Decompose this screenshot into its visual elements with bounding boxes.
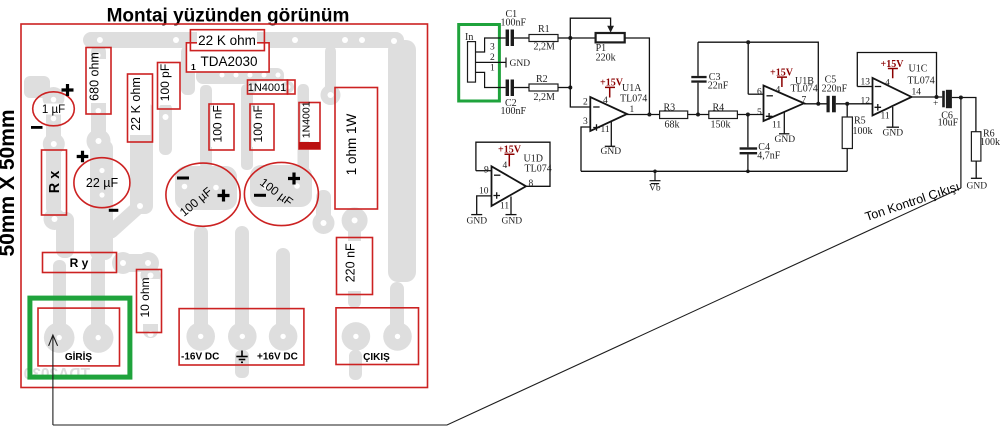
wire U1B pin6 <box>748 93 763 95</box>
svg-text:1N4001: 1N4001 <box>248 82 287 94</box>
input connector J1 <box>468 42 476 83</box>
svg-text:100 nF: 100 nF <box>251 105 265 142</box>
svg-text:R2: R2 <box>536 74 548 85</box>
svg-text:TL074: TL074 <box>791 84 818 95</box>
svg-text:22 K ohm: 22 K ohm <box>198 33 256 48</box>
pointer arrow at GIRIS <box>49 335 58 425</box>
pin label 4 U1D <box>503 161 508 171</box>
pin label 11 U1B <box>772 121 781 131</box>
wire U1A output to R3 <box>627 114 660 116</box>
PCB silkscreen watermark TDA2030 mirrored <box>24 366 90 383</box>
capacitor C6 electrolytic <box>933 90 959 129</box>
junction U1B feedback top <box>746 40 750 44</box>
pin label 2 U1A <box>583 98 588 108</box>
svg-text:-16V DC: -16V DC <box>181 352 219 363</box>
svg-text:1: 1 <box>191 62 196 72</box>
PCB capacitor 100 pF <box>158 63 181 110</box>
pointer line to schematic output <box>53 188 961 425</box>
PCB resistor Rx <box>42 150 67 215</box>
svg-text:R3: R3 <box>664 103 676 114</box>
+15V supply U1D <box>498 145 522 167</box>
pin label 11 U1A <box>601 125 610 135</box>
svg-text:11: 11 <box>772 121 781 131</box>
wire C2 to R2 <box>514 87 529 89</box>
svg-text:GND: GND <box>883 129 904 139</box>
svg-text:10 ohm: 10 ohm <box>138 277 152 317</box>
svg-text:TDA2030: TDA2030 <box>200 54 257 69</box>
wire pin2 to GND <box>476 61 506 63</box>
wire U1C output to C6 <box>912 96 943 98</box>
svg-text:10: 10 <box>479 187 489 197</box>
PCB capacitor 100 uF (left) <box>166 163 240 226</box>
PCB resistor 22 K ohm (vertical) <box>128 74 153 142</box>
op-amp U1A <box>590 83 647 131</box>
svg-text:4: 4 <box>603 96 608 106</box>
svg-text:680 ohm: 680 ohm <box>88 52 102 101</box>
PCB IC TDA2030 outline <box>186 43 269 72</box>
svg-text:220nF: 220nF <box>822 84 848 95</box>
wire R4 to U1B pin5 <box>737 114 763 116</box>
node A junction <box>568 36 572 40</box>
svg-text:1 µF: 1 µF <box>42 104 65 116</box>
svg-text:1: 1 <box>630 105 635 115</box>
P1 wiper arrowhead <box>607 26 614 33</box>
ground R6 <box>967 178 988 191</box>
PCB resistor 1 ohm 1W <box>335 88 378 210</box>
PCB title <box>107 6 350 27</box>
capacitor C1 <box>501 9 527 46</box>
U1D feedback loop wire <box>476 142 550 186</box>
PCB capacitor 220 nF <box>337 238 373 295</box>
pin label 3 U1A <box>583 117 588 127</box>
capacitor C5 <box>822 75 848 113</box>
pin label 13 U1C <box>861 78 871 88</box>
PCB capacitor 100 uF (right) <box>244 162 318 225</box>
svg-text:2,2M: 2,2M <box>534 42 556 53</box>
pin label 9 U1D <box>484 166 489 176</box>
Vb bias node symbol <box>649 170 661 194</box>
PCB resistor 680 ohm <box>86 48 111 115</box>
svg-text:R1: R1 <box>538 24 550 35</box>
resistor R2 <box>529 74 558 103</box>
resistor R6 <box>971 129 1000 179</box>
wire U1D pin10 to ground <box>477 196 492 215</box>
wire pin1 to C2 <box>476 72 506 87</box>
svg-text:4: 4 <box>776 86 781 96</box>
svg-text:5: 5 <box>757 108 762 118</box>
svg-text:4,7nF: 4,7nF <box>757 151 781 162</box>
ground at connector pin2 <box>506 58 530 70</box>
svg-text:Ton Kontrol Çıkışı: Ton Kontrol Çıkışı <box>863 179 961 224</box>
wire node A up and to P1 wiper <box>570 18 610 38</box>
svg-text:9: 9 <box>484 166 489 176</box>
pin label 10 U1D <box>479 187 489 197</box>
PCB capacitor 100 nF (right) <box>250 104 274 150</box>
capacitor C3 <box>691 42 729 114</box>
ground U1D pin11 <box>502 197 523 227</box>
svg-text:100k: 100k <box>853 126 873 137</box>
resistor R1 <box>529 24 558 53</box>
svg-text:13: 13 <box>861 78 871 88</box>
svg-text:GND: GND <box>775 135 796 145</box>
PCB diode 1N4001 (horizontal) <box>248 80 296 94</box>
svg-text:11: 11 <box>500 202 509 212</box>
node In label <box>465 32 473 43</box>
wire C5 to U1C pin12 <box>836 103 873 105</box>
svg-text:R5: R5 <box>854 116 866 127</box>
svg-text:100nF: 100nF <box>501 18 527 29</box>
wire U1D pin9 <box>476 170 492 172</box>
op-amp U1C <box>873 64 935 116</box>
wire R2 to node A vertical <box>558 87 570 89</box>
junction R2 node <box>568 86 572 90</box>
+15V supply U1B <box>770 68 794 88</box>
svg-text:2,2M: 2,2M <box>534 92 556 103</box>
svg-text:6: 6 <box>757 88 762 98</box>
wire pin3 to C1 <box>476 38 506 52</box>
wire C3 to U1B feedback <box>698 41 748 43</box>
pin label 6 U1B <box>757 88 762 98</box>
svg-text:100nF: 100nF <box>501 106 527 117</box>
svg-text:11: 11 <box>601 125 610 135</box>
junction U1B output <box>816 102 820 106</box>
svg-text:1 ohm 1W: 1 ohm 1W <box>344 113 359 175</box>
PCB output connector CIKIS <box>336 308 419 365</box>
junction U1C output <box>935 95 939 99</box>
svg-text:GND: GND <box>601 147 622 157</box>
svg-text:TDA2030: TDA2030 <box>24 366 90 383</box>
output label Ton Kontrol Cikisi <box>863 179 961 224</box>
wire C6 to R6 <box>952 98 976 132</box>
svg-text:2: 2 <box>583 98 588 108</box>
wire P1 right down to U1A output <box>625 38 650 115</box>
svg-text:3: 3 <box>490 43 495 53</box>
PCB capacitor 22 uF <box>74 151 130 212</box>
wire output tap down <box>960 98 962 189</box>
wire R1 to node A <box>558 37 570 39</box>
svg-text:Vb: Vb <box>649 184 661 194</box>
svg-text:GİRİŞ: GİRİŞ <box>65 350 93 363</box>
svg-text:TL074: TL074 <box>908 76 935 87</box>
pin label 7 U1B <box>802 96 807 106</box>
U1C feedback loop wire <box>857 53 936 98</box>
svg-text:U1C: U1C <box>909 64 928 75</box>
pin label 8 U1D <box>529 179 534 189</box>
svg-text:8: 8 <box>529 179 534 189</box>
svg-text:TL074: TL074 <box>620 94 647 105</box>
capacitor C2 <box>501 80 527 118</box>
svg-text:12: 12 <box>861 97 871 107</box>
svg-text:3: 3 <box>583 117 588 127</box>
pin label 5 U1B <box>757 108 762 118</box>
PCB copper traces (gray) <box>24 32 416 380</box>
svg-text:220 nF: 220 nF <box>344 243 358 282</box>
PCB resistor Ry <box>43 253 117 273</box>
wire R3 to R4 <box>688 114 709 116</box>
ground U1A pin11 <box>601 122 622 157</box>
wire C1 to R1 <box>514 37 529 39</box>
capacitor C4 <box>740 115 781 174</box>
PCB resistor 22 K ohm (label box, top) <box>190 30 264 51</box>
svg-text:11: 11 <box>881 112 890 122</box>
junction C3 node <box>696 113 700 117</box>
+15V supply U1A <box>600 78 624 98</box>
svg-text:4: 4 <box>885 78 890 88</box>
pin label 11 U1D <box>500 202 509 212</box>
svg-text:TL074: TL074 <box>525 164 552 175</box>
svg-text:1N4001: 1N4001 <box>301 101 313 138</box>
pin label 2 <box>490 53 495 63</box>
PCB board outline (red) <box>21 24 428 388</box>
ground U1C pin11 <box>883 107 904 139</box>
resistor R5 <box>842 104 872 172</box>
wire node down to U1A pin2 <box>570 38 590 107</box>
resistor R4 <box>709 103 738 131</box>
svg-text:GND: GND <box>467 217 488 227</box>
svg-text:+: + <box>933 99 938 109</box>
resistor R3 <box>660 103 688 131</box>
pin label 12 U1C <box>861 97 871 107</box>
junction feedback at output <box>647 113 651 117</box>
PCB size label 50mm X 50mm <box>0 109 19 256</box>
svg-text:2: 2 <box>490 53 495 63</box>
svg-text:+16V DC: +16V DC <box>257 352 298 363</box>
PCB capacitor 1 uF <box>31 84 74 129</box>
svg-text:ÇIKIŞ: ÇIKIŞ <box>363 352 390 363</box>
PCB input highlight (green box) <box>30 298 130 377</box>
pin label 3 <box>490 43 495 53</box>
svg-text:100 pF: 100 pF <box>158 64 172 101</box>
op-amp U1B <box>764 76 818 121</box>
wire U1B output to C5 <box>804 103 827 105</box>
svg-text:1: 1 <box>490 64 495 74</box>
pin label 11 U1C <box>881 112 890 122</box>
svg-text:GND: GND <box>967 182 988 192</box>
input highlight green box <box>459 25 500 102</box>
ground U1B pin11 <box>775 112 796 145</box>
PCB power ground symbol <box>236 351 247 363</box>
svg-text:R4: R4 <box>713 103 725 114</box>
PCB power connector box <box>179 309 304 365</box>
svg-text:150k: 150k <box>711 120 731 131</box>
svg-text:68k: 68k <box>665 120 680 131</box>
PCB input connector GIRIS (red box) <box>38 308 120 366</box>
svg-text:GND: GND <box>510 59 531 69</box>
junction C4 node <box>746 113 750 117</box>
wire U1C pin13 <box>857 86 872 88</box>
op-amp U1D <box>492 154 552 206</box>
svg-text:22nF: 22nF <box>708 81 729 92</box>
svg-text:22 µF: 22 µF <box>86 176 119 190</box>
PCB capacitor 100 nF (left) <box>209 104 234 150</box>
svg-text:GND: GND <box>502 217 523 227</box>
junction output node <box>959 96 963 100</box>
wire node A to P1 left <box>570 37 595 39</box>
svg-text:100 nF: 100 nF <box>211 105 225 142</box>
wire U1A pin3 to Vb rail <box>581 127 590 171</box>
pin label 4 U1B <box>776 86 781 96</box>
svg-text:50mm X 50mm: 50mm X 50mm <box>0 109 19 256</box>
potentiometer P1 <box>596 33 625 64</box>
svg-text:R y: R y <box>70 256 89 270</box>
pin label 14 U1C <box>912 88 922 98</box>
pin label 1 U1A <box>630 105 635 115</box>
svg-text:100k: 100k <box>980 137 1000 148</box>
svg-text:4: 4 <box>503 161 508 171</box>
PCB pad holes (white) <box>51 37 400 340</box>
svg-text:22 K ohm: 22 K ohm <box>129 77 143 131</box>
svg-text:U1A: U1A <box>622 83 642 94</box>
pin label 4 U1A <box>603 96 608 106</box>
Vb rail wire <box>581 170 847 172</box>
junction R5 node <box>845 102 849 106</box>
svg-text:R x: R x <box>47 171 63 194</box>
pin label 1 <box>490 64 495 74</box>
pin label 4 U1C <box>885 78 890 88</box>
svg-text:10uF: 10uF <box>938 118 959 129</box>
PCB diode 1N4001 (vertical) <box>299 101 320 149</box>
U1B feedback loop wire <box>748 42 818 104</box>
PCB resistor 10 ohm <box>137 270 162 333</box>
svg-text:14: 14 <box>912 88 922 98</box>
+15V supply U1C <box>881 59 905 78</box>
ground U1D pin10 <box>467 215 488 227</box>
svg-text:220k: 220k <box>596 53 616 64</box>
